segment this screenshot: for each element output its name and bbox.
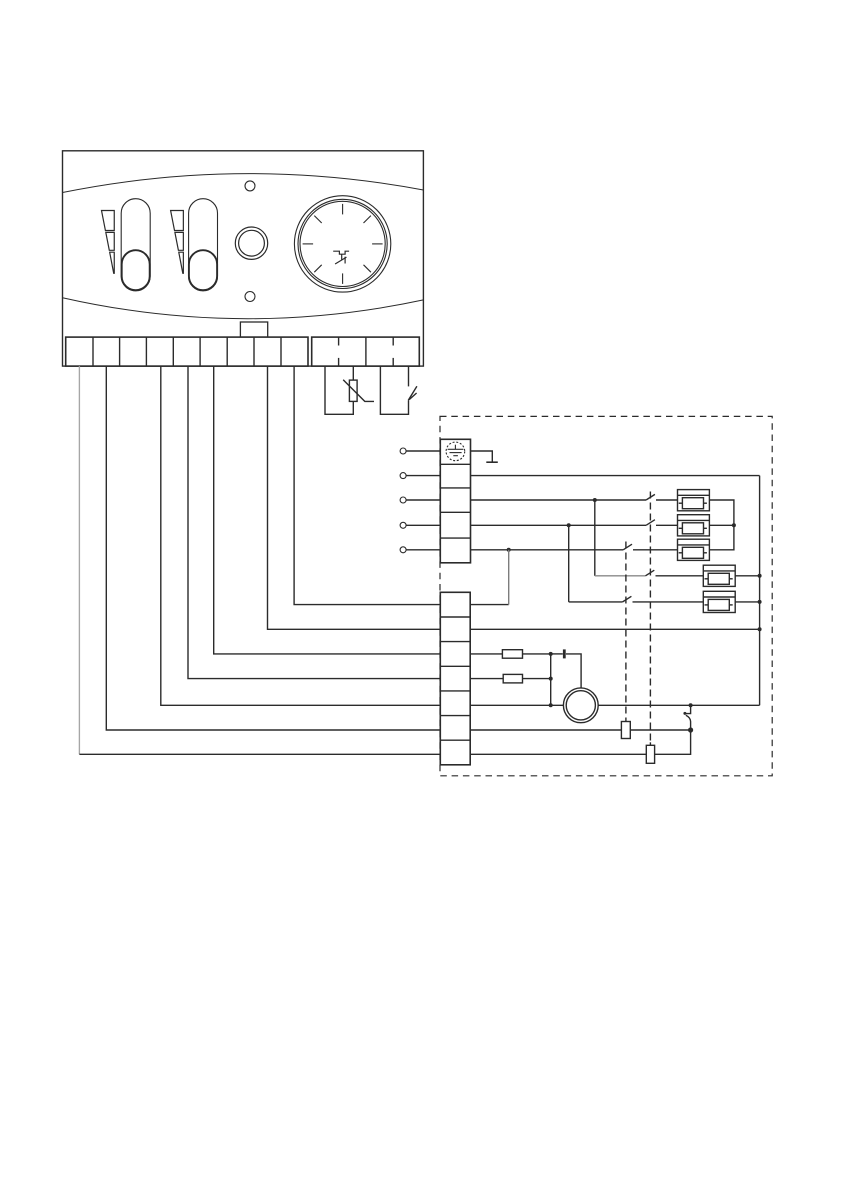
panel lens upper curve [63, 174, 424, 193]
terminal block left group X1 [66, 337, 308, 366]
protective earth symbol in terminal [446, 442, 465, 461]
connector K4 wire to bus [735, 575, 759, 577]
thermostat contact blade [408, 386, 417, 400]
junction vertical wire [550, 654, 552, 705]
slider knob 1 [122, 250, 150, 290]
wire row B to connector [656, 524, 678, 526]
plug connector K4 [703, 565, 735, 586]
mechanical link dashed B [625, 542, 627, 719]
wire X4 cell7 [470, 730, 690, 754]
wire row C to connector [633, 549, 678, 551]
terminal strip X3 upper [440, 439, 470, 563]
pin 2 wire [406, 475, 440, 477]
connector K1-K3 link wire [709, 500, 734, 550]
pin 5 wire [406, 549, 440, 551]
node bus row 2 [758, 627, 762, 631]
wire row E to connector [633, 601, 704, 603]
wire row B [471, 524, 647, 526]
slider scale wedge 1 [102, 211, 115, 274]
overheat element F2 [646, 745, 654, 763]
node K4-bus [758, 574, 762, 578]
pin 1 wire [406, 450, 440, 452]
thermistor RT1 diagonal stroke [343, 380, 374, 402]
thermostat contact flag [409, 393, 416, 400]
panel lens lower curve [63, 298, 424, 319]
terminal block bump [240, 322, 267, 337]
chassis ground bar [486, 461, 498, 463]
thermistor RT1 body [349, 380, 357, 401]
timer contact glyph at dial centre [333, 251, 349, 264]
switch S3 blade [623, 544, 632, 550]
node at motor line [549, 703, 553, 707]
wire row E [569, 601, 623, 603]
wire R1 to node [523, 653, 551, 655]
switch S2 blade [646, 520, 655, 526]
plug connector K5 [703, 591, 735, 612]
node R2 [549, 677, 553, 681]
connector pin circle 3 [400, 497, 406, 503]
motor M1 [563, 688, 598, 723]
wire row D [595, 575, 646, 577]
resistor R1 [502, 650, 522, 659]
thermostat loop wire left leg [380, 366, 408, 414]
wire X4 cell6 [470, 729, 690, 731]
right vertical bus [759, 476, 761, 706]
wire X4 cell4 [470, 678, 503, 680]
node R1 [549, 652, 553, 656]
node switch top [689, 703, 693, 707]
pressure switch fixed contact [685, 705, 690, 713]
connector pin circle 4 [400, 522, 406, 528]
pressure switch blade [686, 715, 691, 730]
wire X4 cell3 [470, 653, 502, 655]
plug connector K2 [678, 515, 710, 536]
screw hole top [245, 181, 255, 191]
pin 4 wire [406, 524, 440, 526]
resistor R2 [503, 674, 522, 683]
connector pin circle 2 [400, 473, 406, 479]
node on row B [567, 523, 571, 527]
wire from panel terminal 6 [214, 366, 441, 654]
wire row L (to right bus) [471, 475, 760, 477]
link B to element F1 [625, 719, 627, 722]
switch S4 blade [646, 570, 655, 576]
slider slot 2 [189, 199, 218, 291]
node cell6 junction [688, 727, 693, 732]
branch wire row A down [594, 500, 596, 576]
wire R2 to node [523, 678, 551, 680]
connector K5 wire to bus [735, 601, 759, 603]
slider knob 2 [189, 250, 217, 290]
timer clock dial [294, 196, 390, 292]
slider slot 1 [121, 199, 150, 291]
slider scale wedge 2 [171, 211, 184, 274]
pin 3 wire [406, 499, 440, 501]
wire from panel terminal 5 [188, 366, 440, 678]
terminal block right group X2 [312, 337, 420, 366]
wire from panel terminal 8 [268, 366, 441, 629]
capacitor C1 [563, 649, 566, 658]
wire row C [471, 549, 624, 551]
screw hole bottom [245, 292, 255, 302]
wire row A to connector [656, 499, 678, 501]
mechanical link dashed A [649, 492, 651, 743]
thermistor RT1 upper lead [352, 366, 354, 380]
capacitor branch wire [551, 653, 563, 655]
switch S1 blade [646, 494, 655, 500]
overheat element F1 [621, 722, 630, 739]
pressure switch pivot [683, 712, 686, 715]
thermostat contact upper lead [408, 366, 410, 386]
node on row C [507, 548, 511, 552]
connector pin circle 1 [400, 448, 406, 454]
link A to element F2 [649, 742, 651, 745]
wire row A [471, 499, 647, 501]
node K5-bus [758, 600, 762, 604]
wire X4 cell1 up to row C [470, 604, 509, 606]
boiler enclosure dashed boundary [440, 416, 772, 775]
node on row A [593, 498, 597, 502]
motor to bus wire [598, 704, 759, 706]
connector K2 link stub [709, 524, 734, 526]
wire X4 cell5 to motor [470, 704, 563, 706]
wire X4 cell2 to bus [470, 628, 759, 630]
wire from panel terminal 9 [294, 366, 440, 604]
wire from panel terminal 1 to strip cell 7 [79, 753, 440, 755]
plug connector K3 [678, 539, 710, 560]
sensor loop wire left leg [325, 366, 353, 414]
wire from panel terminal 4 [161, 366, 441, 705]
wire from panel terminal 2 [106, 366, 440, 730]
branch wire row B down [568, 525, 570, 602]
wire from panel terminal 1 (vertical, faint) [78, 366, 80, 754]
control unit panel outline [63, 151, 424, 366]
plug connector K1 [678, 490, 710, 511]
connector pin circle 5 [400, 547, 406, 553]
wire row D to connector [656, 575, 704, 577]
switch S5 blade [623, 596, 632, 602]
node on link [732, 523, 736, 527]
selector knob [235, 227, 267, 259]
capacitor to motor wire [566, 654, 581, 688]
timer dial tick marks [303, 204, 383, 284]
earth bonding wire [471, 451, 493, 462]
terminal strip X4 lower [440, 592, 470, 765]
